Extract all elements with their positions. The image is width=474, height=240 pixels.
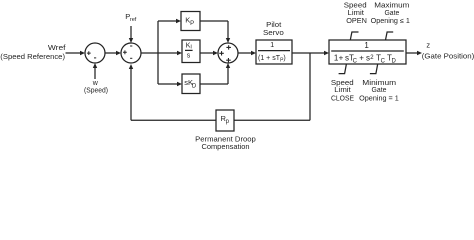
node label z (Gate Position) bbox=[422, 41, 474, 61]
svg-text:Minimum: Minimum bbox=[362, 80, 396, 87]
svg-text:+: + bbox=[339, 54, 344, 63]
svg-text:Opening ≤ 1: Opening ≤ 1 bbox=[371, 18, 410, 25]
svg-text:1: 1 bbox=[364, 41, 369, 50]
svg-text:(Speed): (Speed) bbox=[84, 88, 108, 95]
svg-text:CLOSE: CLOSE bbox=[331, 95, 354, 102]
block U2 gate servo 1/(1+sTC+s2TCTD) bbox=[329, 40, 406, 65]
svg-text:(Speed Reference): (Speed Reference) bbox=[0, 52, 65, 61]
svg-text:Opening = 1: Opening = 1 bbox=[359, 95, 399, 102]
summing junction S1 bbox=[85, 43, 105, 63]
wire Pref input arrow bbox=[129, 26, 133, 43]
svg-text:1: 1 bbox=[270, 42, 274, 49]
wire S3 to pilot servo bbox=[238, 51, 256, 55]
wire gate servo output z arrow bbox=[406, 51, 422, 55]
limiter mark top left bbox=[350, 32, 358, 40]
svg-text:Gate: Gate bbox=[372, 87, 387, 94]
svg-text:P: P bbox=[190, 21, 194, 27]
label Speed Limit OPEN bbox=[344, 3, 367, 26]
label Pilot Servo bbox=[263, 22, 284, 37]
svg-text:Limit: Limit bbox=[334, 87, 350, 94]
svg-text:Speed: Speed bbox=[344, 3, 367, 10]
svg-text:Gate: Gate bbox=[384, 10, 399, 17]
svg-text:Wref: Wref bbox=[48, 43, 67, 52]
block KP proportional gain bbox=[181, 12, 200, 31]
summing junction S3 bbox=[218, 43, 238, 63]
svg-text:D: D bbox=[392, 59, 397, 65]
block sKD derivative gain bbox=[182, 74, 200, 94]
svg-text:(1 + sT: (1 + sT bbox=[258, 55, 281, 62]
wire S2 output to PID branch bbox=[141, 19, 182, 86]
block RP permanent droop bbox=[216, 110, 234, 131]
svg-text:Compensation: Compensation bbox=[201, 142, 249, 151]
wire KI output to S3 left bbox=[200, 51, 218, 55]
limiter mark top right bbox=[386, 32, 394, 40]
svg-text:w: w bbox=[92, 80, 99, 87]
svg-text:ref: ref bbox=[130, 17, 137, 23]
wire feedback from RP to S2 bottom bbox=[129, 64, 216, 120]
node label Wref (Speed Reference) bbox=[0, 43, 66, 61]
svg-text:OPEN: OPEN bbox=[346, 18, 367, 25]
svg-text:Servo: Servo bbox=[263, 30, 284, 37]
svg-text:2: 2 bbox=[370, 55, 374, 61]
label Speed Limit CLOSE bbox=[331, 80, 354, 103]
wire w speed input arrow bbox=[93, 63, 97, 79]
wire KP output to S3 top bbox=[200, 21, 230, 43]
wire feedback tap from pilot servo output down and left bbox=[234, 53, 310, 120]
svg-text:Pilot: Pilot bbox=[266, 22, 281, 29]
svg-text:Maximum: Maximum bbox=[374, 3, 409, 10]
svg-text:+: + bbox=[359, 54, 364, 63]
wire S1 to S2 bbox=[105, 51, 121, 55]
svg-text:s: s bbox=[187, 53, 191, 60]
svg-text:Limit: Limit bbox=[348, 10, 364, 17]
limiter mark bottom right bbox=[370, 64, 378, 74]
label Minimum Gate Opening = 1 bbox=[359, 80, 399, 103]
summing junction S2 bbox=[121, 43, 141, 63]
wire input Wref arrow bbox=[66, 51, 86, 55]
wire pilot servo to gate servo bbox=[292, 51, 329, 55]
svg-text:(Gate Position): (Gate Position) bbox=[422, 51, 474, 60]
svg-text:I: I bbox=[190, 45, 192, 51]
block KI/s integral gain bbox=[182, 40, 200, 63]
block U1 pilot servo 1/(1+sTP) bbox=[256, 40, 292, 64]
svg-text:Speed: Speed bbox=[331, 80, 354, 87]
svg-text:z: z bbox=[426, 41, 430, 50]
svg-text:C: C bbox=[381, 59, 386, 65]
svg-text:): ) bbox=[283, 55, 285, 62]
limiter mark bottom left bbox=[339, 64, 347, 74]
wire sKD output to S3 bottom bbox=[200, 63, 230, 84]
svg-text:C: C bbox=[353, 59, 358, 65]
svg-text:D: D bbox=[192, 84, 197, 90]
node label Pref bbox=[125, 12, 137, 23]
label Permanent Droop Compensation bbox=[195, 134, 256, 151]
label Maximum Gate Opening <= 1 bbox=[371, 3, 410, 26]
node label w (Speed) bbox=[84, 80, 108, 94]
svg-text:p: p bbox=[226, 119, 230, 125]
